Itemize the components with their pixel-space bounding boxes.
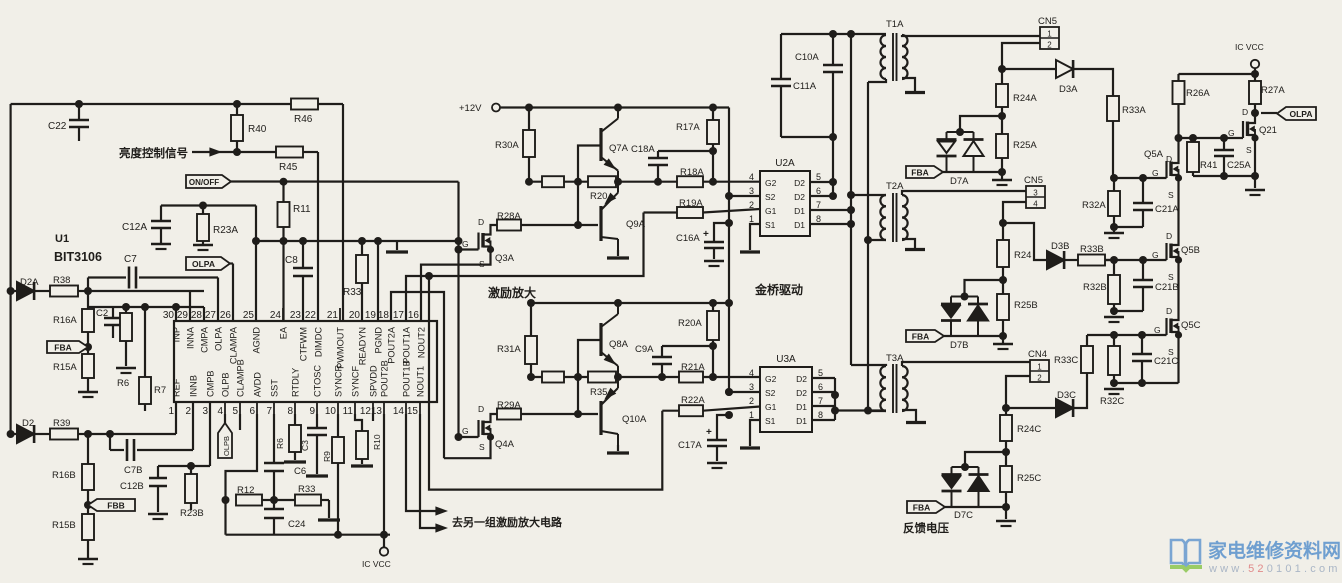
svg-text:G: G: [1152, 168, 1159, 178]
svg-text:BIT3106: BIT3106: [54, 250, 102, 264]
svg-text:Q4A: Q4A: [495, 439, 515, 450]
svg-text:Q8A: Q8A: [609, 339, 629, 350]
svg-text:R28A: R28A: [497, 211, 521, 222]
svg-text:D7C: D7C: [954, 510, 973, 521]
svg-text:9: 9: [309, 406, 315, 417]
svg-text:POUT2A: POUT2A: [387, 326, 397, 364]
svg-text:C12A: C12A: [122, 222, 147, 233]
svg-text:16: 16: [408, 310, 420, 321]
svg-text:S: S: [479, 442, 485, 452]
svg-text:R25A: R25A: [1013, 140, 1037, 151]
svg-text:R19A: R19A: [679, 198, 703, 209]
svg-text:R20: R20: [590, 191, 607, 202]
svg-text:FBA: FBA: [913, 502, 930, 512]
svg-text:D7B: D7B: [950, 340, 968, 351]
svg-text:EA: EA: [279, 326, 289, 339]
svg-text:NOUT2: NOUT2: [417, 327, 427, 358]
svg-text:R40: R40: [248, 124, 267, 135]
svg-text:INNB: INNB: [189, 375, 199, 397]
svg-text:4: 4: [217, 406, 223, 417]
svg-text:CTOSC: CTOSC: [313, 365, 323, 397]
svg-text:5: 5: [818, 368, 823, 378]
svg-text:U2A: U2A: [775, 158, 795, 169]
svg-text:U3A: U3A: [776, 354, 796, 365]
svg-text:R15A: R15A: [53, 362, 77, 373]
svg-text:INNA: INNA: [186, 326, 196, 349]
svg-text:R9: R9: [322, 451, 332, 462]
svg-text:C2: C2: [96, 308, 108, 319]
svg-text:28: 28: [191, 310, 203, 321]
svg-text:C21B: C21B: [1155, 282, 1179, 293]
svg-text:REF: REF: [172, 378, 182, 397]
svg-text:G: G: [1228, 128, 1235, 138]
svg-text:金桥驱动: 金桥驱动: [754, 282, 803, 297]
svg-text:CN4: CN4: [1028, 349, 1047, 360]
svg-text:3: 3: [749, 186, 754, 196]
svg-text:SST: SST: [270, 379, 280, 397]
svg-text:G2: G2: [765, 178, 777, 188]
svg-text:D2A: D2A: [20, 277, 39, 288]
svg-text:R32A: R32A: [1082, 200, 1106, 211]
svg-text:S2: S2: [765, 388, 776, 398]
svg-text:1: 1: [1037, 363, 1042, 372]
svg-text:R32C: R32C: [1100, 396, 1124, 407]
svg-text:8: 8: [287, 406, 293, 417]
svg-text:C16A: C16A: [676, 233, 700, 244]
svg-text:PWMOUT: PWMOUT: [336, 327, 346, 369]
svg-text:R12: R12: [237, 485, 254, 496]
svg-text:R29A: R29A: [497, 400, 521, 411]
svg-text:R6: R6: [117, 378, 129, 389]
svg-text:IC VCC: IC VCC: [1235, 42, 1264, 52]
svg-text:1: 1: [749, 214, 754, 224]
svg-text:D2: D2: [794, 192, 805, 202]
svg-text:R23A: R23A: [213, 225, 238, 236]
svg-text:激励放大: 激励放大: [488, 285, 536, 300]
svg-text:R22A: R22A: [681, 395, 705, 406]
svg-text:21: 21: [327, 310, 339, 321]
svg-text:R18A: R18A: [680, 167, 704, 178]
svg-text:G: G: [1152, 250, 1159, 260]
svg-text:POUT1B: POUT1B: [402, 360, 412, 397]
svg-text:R25B: R25B: [1014, 300, 1038, 311]
svg-text:S: S: [1246, 145, 1252, 155]
svg-text:D1: D1: [796, 416, 807, 426]
svg-text:30: 30: [163, 310, 175, 321]
svg-text:1: 1: [749, 410, 754, 420]
svg-text:C6: C6: [294, 466, 306, 477]
svg-text:22: 22: [305, 310, 317, 321]
svg-text:C3: C3: [300, 440, 310, 451]
svg-text:D3A: D3A: [1059, 84, 1078, 95]
svg-text:OLPB: OLPB: [222, 436, 231, 456]
svg-text:2: 2: [1047, 41, 1052, 50]
svg-text:C7: C7: [124, 254, 137, 265]
svg-text:POUT1A: POUT1A: [402, 326, 412, 364]
svg-text:R11: R11: [293, 204, 311, 215]
svg-text:PGND: PGND: [374, 327, 384, 354]
svg-text:CMPB: CMPB: [206, 370, 216, 397]
svg-text:R23B: R23B: [180, 508, 204, 519]
svg-text:D1: D1: [794, 220, 805, 230]
svg-text:R7: R7: [154, 385, 166, 396]
svg-text:OLPA: OLPA: [1290, 109, 1313, 119]
svg-text:R24: R24: [1014, 250, 1031, 261]
svg-text:D2: D2: [794, 178, 805, 188]
svg-text:SYNCF: SYNCF: [351, 365, 361, 397]
svg-text:ON/OFF: ON/OFF: [189, 178, 219, 187]
svg-text:Q7A: Q7A: [609, 143, 629, 154]
svg-text:27: 27: [205, 310, 217, 321]
svg-text:OLPA: OLPA: [214, 326, 224, 351]
svg-text:R20A: R20A: [678, 318, 702, 329]
svg-text:R24A: R24A: [1013, 93, 1037, 104]
svg-text:CN5: CN5: [1038, 16, 1057, 27]
svg-text:Q5A: Q5A: [1144, 149, 1164, 160]
svg-text:AVDD: AVDD: [253, 372, 263, 397]
svg-text:6: 6: [249, 406, 255, 417]
svg-text:OLPA: OLPA: [192, 259, 215, 269]
svg-text:D: D: [478, 404, 484, 414]
svg-text:D: D: [1166, 154, 1172, 164]
svg-text:FBB: FBB: [107, 500, 124, 510]
svg-text:IC VCC: IC VCC: [362, 559, 391, 569]
svg-text:1: 1: [168, 406, 174, 417]
svg-text:R33: R33: [343, 287, 362, 298]
svg-text:C22: C22: [48, 121, 67, 132]
svg-text:2: 2: [185, 406, 191, 417]
svg-text:C11A: C11A: [793, 81, 817, 92]
svg-text:11: 11: [343, 406, 354, 417]
svg-text:R33: R33: [298, 484, 315, 495]
svg-text:FBA: FBA: [54, 342, 71, 352]
svg-text:C8: C8: [285, 255, 298, 266]
svg-text:C10A: C10A: [795, 52, 819, 63]
svg-text:C18A: C18A: [631, 144, 655, 155]
svg-text:R21A: R21A: [681, 362, 705, 373]
svg-text:G1: G1: [765, 206, 777, 216]
svg-text:10: 10: [325, 406, 337, 417]
svg-text:D: D: [1166, 231, 1172, 241]
svg-text:CLAMPA: CLAMPA: [229, 326, 239, 364]
svg-text:17: 17: [393, 310, 405, 321]
svg-text:G: G: [462, 426, 469, 436]
svg-text:25: 25: [243, 310, 255, 321]
svg-text:R46: R46: [294, 114, 313, 125]
svg-text:RTDLY: RTDLY: [291, 368, 301, 397]
svg-text:亮度控制信号: 亮度控制信号: [119, 146, 188, 160]
svg-text:12: 12: [360, 406, 372, 417]
svg-text:FBA: FBA: [911, 167, 928, 177]
svg-text:FBA: FBA: [912, 331, 929, 341]
svg-text:5: 5: [232, 406, 238, 417]
svg-text:R39: R39: [53, 418, 70, 429]
svg-text:Q5C: Q5C: [1181, 320, 1201, 331]
svg-text:R30A: R30A: [495, 140, 519, 151]
svg-text:R27A: R27A: [1261, 85, 1285, 96]
svg-text:8: 8: [818, 410, 823, 420]
svg-text:4: 4: [1033, 200, 1038, 209]
svg-text:D2: D2: [796, 388, 807, 398]
svg-text:+12V: +12V: [459, 103, 482, 114]
svg-text:R16A: R16A: [53, 315, 77, 326]
svg-text:R33B: R33B: [1080, 244, 1104, 255]
svg-text:R25C: R25C: [1017, 473, 1041, 484]
svg-text:C17A: C17A: [678, 440, 702, 451]
svg-text:D1: D1: [796, 402, 807, 412]
svg-text:R41: R41: [1200, 160, 1217, 171]
svg-text:INP: INP: [172, 327, 182, 342]
svg-text:R17A: R17A: [676, 122, 700, 133]
svg-text:6: 6: [816, 186, 821, 196]
svg-text:T1A: T1A: [886, 19, 904, 30]
svg-text:R45: R45: [279, 162, 298, 173]
svg-text:SPVDD: SPVDD: [369, 365, 379, 397]
svg-text:SYNCR: SYNCR: [334, 364, 344, 397]
svg-text:3: 3: [749, 382, 754, 392]
svg-text:4: 4: [749, 172, 754, 182]
svg-text:D3C: D3C: [1057, 390, 1076, 401]
svg-text:Q5B: Q5B: [1181, 245, 1200, 256]
svg-text:4: 4: [749, 368, 754, 378]
svg-text:D1: D1: [794, 206, 805, 216]
svg-text:26: 26: [220, 310, 232, 321]
svg-text:R16B: R16B: [52, 470, 76, 481]
svg-text:G: G: [462, 239, 469, 249]
svg-text:POUT2B: POUT2B: [380, 360, 390, 397]
svg-text:3: 3: [1033, 189, 1038, 198]
svg-text:S: S: [1168, 272, 1174, 282]
svg-text:U1: U1: [55, 233, 69, 245]
svg-text:R33A: R33A: [1122, 105, 1146, 116]
svg-text:R35: R35: [590, 387, 607, 398]
svg-text:D: D: [478, 217, 484, 227]
svg-text:反馈电压: 反馈电压: [903, 521, 949, 535]
svg-text:G: G: [1154, 325, 1161, 335]
svg-text:2: 2: [749, 200, 754, 210]
svg-text:Q9A: Q9A: [626, 219, 646, 230]
svg-text:7: 7: [266, 406, 272, 417]
svg-text:OLPB: OLPB: [221, 372, 231, 397]
svg-text:R38: R38: [53, 275, 70, 286]
svg-text:8: 8: [816, 214, 821, 224]
svg-text:R10: R10: [372, 434, 382, 450]
svg-text:Q3A: Q3A: [495, 253, 515, 264]
svg-text:S1: S1: [765, 220, 776, 230]
svg-text:D2: D2: [796, 374, 807, 384]
svg-text:R24C: R24C: [1017, 424, 1041, 435]
svg-text:Q10A: Q10A: [622, 414, 647, 425]
svg-text:19: 19: [365, 310, 377, 321]
svg-text:C12B: C12B: [120, 481, 144, 492]
svg-text:C24: C24: [288, 519, 305, 530]
svg-text:G1: G1: [765, 402, 777, 412]
svg-text:R15B: R15B: [52, 520, 76, 531]
svg-text:S1: S1: [765, 416, 776, 426]
svg-text:DIMDC: DIMDC: [314, 327, 324, 357]
svg-text:C7B: C7B: [124, 465, 142, 476]
svg-text:2: 2: [749, 396, 754, 406]
svg-text:D3B: D3B: [1051, 241, 1069, 252]
svg-text:AGND: AGND: [252, 327, 262, 354]
svg-text:READYN: READYN: [358, 327, 368, 365]
svg-text:20: 20: [349, 310, 361, 321]
svg-text:R32B: R32B: [1083, 282, 1107, 293]
svg-text:R31A: R31A: [497, 344, 521, 355]
svg-text:Q21: Q21: [1259, 125, 1277, 136]
svg-text:C21A: C21A: [1155, 204, 1179, 215]
svg-text:D7A: D7A: [950, 176, 969, 187]
svg-text:S: S: [479, 259, 485, 269]
svg-text:+: +: [706, 427, 712, 438]
svg-text:D: D: [1166, 306, 1172, 316]
svg-text:去另一组激励放大电路: 去另一组激励放大电路: [452, 515, 563, 529]
svg-text:D2: D2: [22, 418, 34, 429]
svg-text:CLAMPB: CLAMPB: [236, 359, 246, 397]
svg-text:23: 23: [290, 310, 302, 321]
svg-text:15: 15: [407, 406, 419, 417]
svg-text:www.520101.com: www.520101.com: [1208, 563, 1341, 575]
svg-text:NOUT1: NOUT1: [416, 366, 426, 397]
svg-text:7: 7: [816, 200, 821, 210]
svg-text:CMPA: CMPA: [200, 326, 210, 353]
svg-text:CN5: CN5: [1024, 175, 1043, 186]
svg-text:24: 24: [270, 310, 282, 321]
svg-text:D: D: [1242, 107, 1248, 117]
svg-text:C25A: C25A: [1227, 160, 1251, 171]
svg-text:18: 18: [378, 310, 390, 321]
svg-text:7: 7: [818, 396, 823, 406]
svg-text:5: 5: [816, 172, 821, 182]
svg-text:+: +: [703, 229, 709, 240]
svg-text:3: 3: [202, 406, 208, 417]
svg-text:R26A: R26A: [1186, 88, 1210, 99]
svg-text:14: 14: [393, 406, 405, 417]
svg-text:C21C: C21C: [1154, 356, 1178, 367]
svg-text:C9A: C9A: [635, 344, 654, 355]
svg-text:29: 29: [177, 310, 189, 321]
svg-text:家电维修资料网: 家电维修资料网: [1208, 539, 1341, 562]
svg-text:1: 1: [1047, 30, 1052, 39]
svg-text:G2: G2: [765, 374, 777, 384]
svg-text:S2: S2: [765, 192, 776, 202]
svg-text:6: 6: [818, 382, 823, 392]
svg-text:R6: R6: [275, 438, 285, 449]
svg-text:S: S: [1168, 190, 1174, 200]
svg-text:2: 2: [1037, 374, 1042, 383]
svg-text:R33C: R33C: [1054, 355, 1078, 366]
svg-text:CTFWM: CTFWM: [299, 327, 309, 361]
